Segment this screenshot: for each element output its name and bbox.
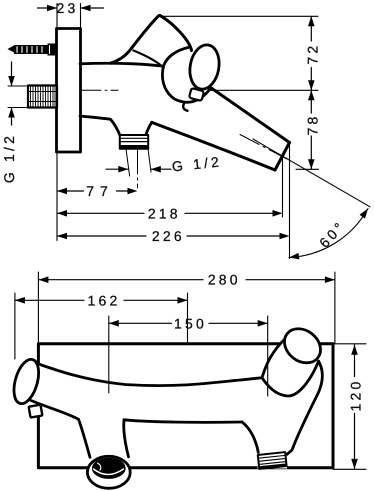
- svg-text:G 1/2: G 1/2: [1, 133, 17, 183]
- drain knob (black): [92, 458, 126, 479]
- screw: [8, 44, 57, 56]
- right column extension lines: [162, 15, 318, 17]
- body top edge: [80, 63, 162, 66]
- dim 280: [38, 279, 203, 281]
- svg-text:226: 226: [152, 228, 185, 244]
- svg-text:23: 23: [57, 0, 79, 16]
- G 1/2 left dimension: [11, 62, 13, 85]
- handle knob cap: [9, 357, 43, 407]
- outlet G 1/2 dimension: [126, 149, 130, 176]
- right vertical extension lines: [282, 158, 284, 217]
- cylinder/body junction: [262, 361, 319, 396]
- dim 162 ext lines: [14, 293, 16, 359]
- svg-text:G 1/2: G 1/2: [171, 153, 223, 174]
- bottom outlet thread: [258, 452, 287, 469]
- screw axis tick: [58, 48, 64, 50]
- dim 23 extension lines: [56, 4, 58, 29]
- spout top edge: [211, 88, 290, 143]
- spout end face: [275, 143, 290, 171]
- body fill (hides rect lines behind): [9, 330, 322, 468]
- 60 degree arc: [289, 209, 368, 258]
- dim 226: [57, 235, 146, 237]
- dim 120: [354, 345, 356, 377]
- drain funnel legs: [79, 419, 129, 457]
- right side contour: [287, 361, 322, 454]
- threaded inlet: [28, 86, 57, 108]
- dim 77: [57, 190, 84, 192]
- svg-text:77: 77: [86, 183, 114, 199]
- left extension line (wall face): [56, 153, 58, 241]
- threaded inlet ext lines: [8, 85, 28, 87]
- body top contour: [33, 339, 286, 386]
- svg-text:280: 280: [208, 272, 241, 288]
- svg-text:60°: 60°: [316, 217, 349, 250]
- dim 72 / 78 vertical: [310, 16, 312, 41]
- drain ring: [87, 456, 130, 488]
- dim 162: [15, 299, 84, 301]
- left of outlet: [242, 422, 258, 453]
- body centerline: [82, 89, 118, 91]
- dim 23: [38, 7, 57, 9]
- cartridge cap: [162, 47, 210, 102]
- 60 degree construction line: [253, 139, 370, 207]
- svg-text:162: 162: [88, 292, 121, 308]
- spout cylinder cap: [278, 322, 328, 370]
- outlet centerline: [137, 150, 139, 188]
- svg-text:78: 78: [304, 114, 320, 136]
- lever handle: [111, 16, 192, 64]
- extension lines over body: [108, 316, 110, 393]
- cap lower lip curl: [183, 103, 187, 111]
- dim 120 ext lines: [333, 343, 366, 345]
- wall plate rectangle: [38, 344, 333, 468]
- svg-text:120: 120: [348, 379, 364, 412]
- svg-text:150: 150: [174, 315, 207, 331]
- spout centerline: [240, 135, 287, 160]
- bottom contour: [31, 401, 242, 423]
- eco button: [189, 88, 204, 101]
- wall plate: [57, 29, 81, 153]
- svg-text:218: 218: [148, 205, 181, 221]
- dim 150: [109, 322, 172, 324]
- svg-text:72: 72: [304, 43, 320, 65]
- dim 280 ext lines: [37, 272, 39, 343]
- dim 218: [57, 212, 144, 214]
- knob tab: [29, 405, 43, 418]
- handle base fairing: [134, 51, 162, 66]
- outlet thread: [120, 135, 148, 149]
- knob (egg): [187, 43, 223, 92]
- body bottom edge + outlet funnel + spout bottom: [80, 116, 120, 135]
